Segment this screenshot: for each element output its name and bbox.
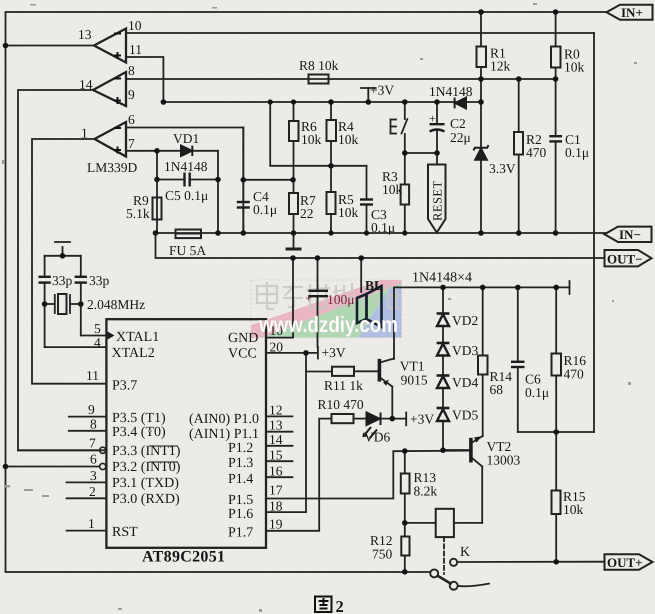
svg-text:P3.7: P3.7 bbox=[112, 379, 137, 394]
svg-text:P3.0 (RXD): P3.0 (RXD) bbox=[112, 492, 180, 507]
svg-text:14: 14 bbox=[269, 432, 283, 447]
svg-text:6: 6 bbox=[128, 112, 135, 127]
svg-text:VD4: VD4 bbox=[452, 375, 478, 390]
svg-text:100μ: 100μ bbox=[327, 292, 355, 307]
svg-text:R10 470: R10 470 bbox=[318, 397, 364, 412]
svg-text:12k: 12k bbox=[490, 59, 511, 74]
svg-text:7: 7 bbox=[128, 136, 135, 151]
svg-text:17: 17 bbox=[269, 483, 283, 498]
svg-text:www.dzdiy.com: www.dzdiy.com bbox=[258, 312, 398, 337]
svg-text:GND: GND bbox=[228, 331, 258, 346]
svg-text:0.1μ: 0.1μ bbox=[565, 145, 589, 160]
svg-text:0.1μ: 0.1μ bbox=[253, 202, 277, 217]
svg-text:22: 22 bbox=[300, 206, 314, 221]
svg-text:OUT+: OUT+ bbox=[607, 555, 643, 570]
svg-text:0.1μ: 0.1μ bbox=[525, 385, 549, 400]
svg-text:+: + bbox=[305, 291, 312, 305]
svg-text:8.2k: 8.2k bbox=[414, 484, 438, 499]
svg-text:9: 9 bbox=[88, 402, 95, 417]
svg-text:RESET: RESET bbox=[431, 180, 445, 221]
svg-text:33p: 33p bbox=[52, 273, 73, 288]
svg-text:6: 6 bbox=[90, 452, 97, 467]
svg-text:P3.5 (T1): P3.5 (T1) bbox=[112, 411, 166, 426]
svg-text:P1.2: P1.2 bbox=[228, 441, 253, 456]
svg-text:13003: 13003 bbox=[487, 453, 521, 468]
svg-text:VD6: VD6 bbox=[364, 430, 390, 445]
svg-text:XTAL2: XTAL2 bbox=[112, 346, 155, 361]
svg-text:4: 4 bbox=[94, 335, 101, 350]
svg-text:P1.3: P1.3 bbox=[228, 456, 253, 471]
svg-text:9015: 9015 bbox=[401, 373, 428, 388]
svg-text:20: 20 bbox=[270, 340, 284, 355]
svg-text:2: 2 bbox=[336, 597, 344, 614]
svg-text:10k: 10k bbox=[338, 205, 359, 220]
svg-text:VD2: VD2 bbox=[452, 313, 478, 328]
svg-text:2.048MHz: 2.048MHz bbox=[87, 297, 145, 312]
svg-text:RST: RST bbox=[112, 525, 138, 540]
svg-text:68: 68 bbox=[490, 382, 504, 397]
svg-text:1N4148×4: 1N4148×4 bbox=[412, 271, 472, 286]
svg-text:12: 12 bbox=[269, 403, 283, 418]
svg-text:5.1k: 5.1k bbox=[126, 206, 150, 221]
svg-text:VT1: VT1 bbox=[400, 359, 425, 374]
svg-text:10k: 10k bbox=[564, 60, 585, 75]
svg-text:BL: BL bbox=[365, 278, 383, 293]
svg-text:11: 11 bbox=[86, 368, 99, 383]
svg-text:1: 1 bbox=[88, 516, 95, 531]
svg-text:P1.7: P1.7 bbox=[228, 526, 253, 541]
svg-text:2: 2 bbox=[89, 484, 96, 499]
svg-text:VD3: VD3 bbox=[452, 343, 478, 358]
svg-text:3: 3 bbox=[90, 468, 97, 483]
svg-text:C2: C2 bbox=[450, 116, 466, 131]
svg-text:1N4148: 1N4148 bbox=[164, 159, 208, 174]
svg-text:P1.6: P1.6 bbox=[228, 507, 253, 522]
svg-text:P1.4: P1.4 bbox=[228, 472, 253, 487]
svg-text:13: 13 bbox=[78, 27, 92, 42]
svg-text:P3.1 (TXD): P3.1 (TXD) bbox=[112, 476, 179, 491]
svg-text:470: 470 bbox=[526, 145, 547, 160]
svg-text:10k: 10k bbox=[301, 132, 322, 147]
svg-text:13: 13 bbox=[269, 418, 283, 433]
svg-text:K: K bbox=[460, 545, 470, 560]
svg-text:R8 10k: R8 10k bbox=[299, 58, 339, 73]
svg-text:+3V: +3V bbox=[410, 412, 434, 427]
svg-text:5: 5 bbox=[94, 321, 101, 336]
svg-text:19: 19 bbox=[269, 517, 283, 532]
svg-text:VD5: VD5 bbox=[452, 408, 478, 423]
svg-text:10k: 10k bbox=[382, 182, 403, 197]
svg-text:1: 1 bbox=[81, 126, 88, 141]
svg-text:IN−: IN− bbox=[619, 227, 641, 242]
svg-text:VD1: VD1 bbox=[173, 131, 199, 146]
svg-text:+3V: +3V bbox=[370, 83, 394, 98]
svg-text:10: 10 bbox=[128, 18, 142, 33]
svg-text:0.1μ: 0.1μ bbox=[371, 220, 395, 235]
svg-text:750: 750 bbox=[372, 547, 393, 562]
svg-text:470: 470 bbox=[564, 367, 585, 382]
svg-text:8: 8 bbox=[128, 63, 135, 78]
svg-text:14: 14 bbox=[79, 77, 93, 92]
svg-text:P3.4 (T0): P3.4 (T0) bbox=[112, 425, 166, 440]
svg-text:+: + bbox=[429, 112, 436, 126]
svg-text:VCC: VCC bbox=[228, 347, 257, 362]
svg-text:33p: 33p bbox=[89, 273, 110, 288]
svg-text:18: 18 bbox=[269, 499, 283, 514]
svg-text:R11 1k: R11 1k bbox=[324, 378, 363, 393]
svg-text:XTAL1: XTAL1 bbox=[116, 330, 159, 345]
svg-text:P1.5: P1.5 bbox=[228, 493, 253, 508]
svg-text:+3V: +3V bbox=[322, 345, 346, 360]
svg-text:C5 0.1μ: C5 0.1μ bbox=[165, 188, 208, 203]
svg-text:AT89C2051: AT89C2051 bbox=[142, 549, 225, 566]
svg-text:22μ: 22μ bbox=[450, 130, 471, 145]
svg-text:7: 7 bbox=[89, 436, 96, 451]
svg-text:10k: 10k bbox=[338, 132, 359, 147]
svg-text:9: 9 bbox=[128, 87, 135, 102]
svg-text:8: 8 bbox=[90, 417, 97, 432]
svg-text:IN+: IN+ bbox=[621, 5, 643, 20]
svg-text:(AIN0) P1.0: (AIN0) P1.0 bbox=[189, 412, 259, 427]
svg-text:LM339D: LM339D bbox=[87, 160, 138, 175]
svg-text:3.3V: 3.3V bbox=[489, 161, 516, 176]
svg-text:16: 16 bbox=[269, 464, 283, 479]
svg-text:FU 5A: FU 5A bbox=[169, 243, 206, 258]
svg-text:11: 11 bbox=[129, 42, 142, 57]
svg-text:1N4148: 1N4148 bbox=[429, 84, 473, 99]
svg-text:(AIN1) P1.1: (AIN1) P1.1 bbox=[189, 427, 259, 442]
svg-text:15: 15 bbox=[269, 448, 283, 463]
svg-text:10k: 10k bbox=[563, 502, 584, 517]
svg-text:OUT−: OUT− bbox=[607, 252, 643, 267]
